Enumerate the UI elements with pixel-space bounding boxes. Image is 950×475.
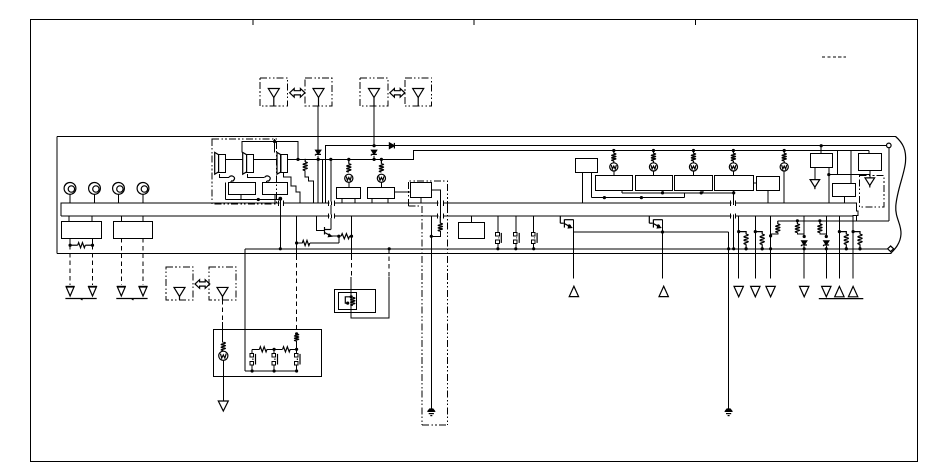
memory block U4 xyxy=(811,154,833,168)
amp top wire xyxy=(242,142,298,160)
node CN1 dot xyxy=(496,247,499,250)
connector J2 legs xyxy=(120,216,122,221)
node Q3e dot xyxy=(337,235,340,238)
node lamp5 dot xyxy=(783,149,786,152)
wire U4-link feed xyxy=(837,151,839,175)
motor M4 leg xyxy=(142,194,144,203)
relay drive wire xyxy=(574,231,729,233)
shield box bottom seg xyxy=(408,205,421,207)
terminal circle xyxy=(887,143,892,148)
lamp5 long stub xyxy=(783,171,785,203)
under-box wire W2 xyxy=(592,197,685,199)
node bus1 dot xyxy=(317,158,320,161)
wire v351 dashed xyxy=(351,256,353,278)
signal bus wire xyxy=(298,151,869,160)
antenna module A3 box xyxy=(360,78,388,106)
antenna A3 lead xyxy=(373,106,375,146)
U1 output stub xyxy=(240,194,242,199)
transistor Q4 xyxy=(559,216,561,223)
off-page triangle P2 xyxy=(659,286,668,296)
amp bottom wire xyxy=(226,199,281,201)
node R5a dot xyxy=(295,241,298,244)
wire v853.1 xyxy=(852,216,854,278)
lamp LP2 xyxy=(377,174,385,182)
A6 lead dashed xyxy=(222,300,224,322)
wire ant1 down xyxy=(317,156,319,203)
motor M2 leg xyxy=(94,194,96,203)
node r14 dot xyxy=(803,247,806,250)
S1 bottom stub xyxy=(621,191,623,193)
node W1a dot xyxy=(661,191,664,194)
amp stub to speaker 3 xyxy=(274,142,276,153)
crystal element xyxy=(345,297,351,303)
wire v331 down xyxy=(330,159,332,229)
aux wire riser xyxy=(856,216,858,221)
contact CN4 xyxy=(250,354,254,358)
node speaker-bus dot xyxy=(296,158,299,161)
motor M3 xyxy=(113,183,125,195)
antenna module A5 box xyxy=(166,267,193,300)
U4 right leg xyxy=(828,168,830,203)
K3 stub xyxy=(420,198,422,204)
transistor Q5 xyxy=(648,216,650,223)
dashed lead to speaker at x=70.1 xyxy=(69,245,71,285)
L1 lower wire xyxy=(305,171,314,204)
S5 stem xyxy=(767,191,769,204)
resistor R11 branch xyxy=(838,230,841,233)
contact out 3 xyxy=(533,243,535,249)
crystal loop wire xyxy=(351,277,389,318)
resistor R9 branch xyxy=(737,230,740,233)
wire v733 xyxy=(733,216,735,249)
connector J1 legs xyxy=(68,216,70,221)
wire amp to bus B xyxy=(279,200,281,249)
bus wire B xyxy=(245,248,887,250)
R14 out xyxy=(296,341,298,349)
contact CN1 xyxy=(496,233,500,237)
motor M3 leg xyxy=(118,194,120,203)
driver Q1 squiggle xyxy=(229,176,235,181)
U2 output stub xyxy=(274,194,276,203)
connector box J2 xyxy=(114,222,153,239)
node bus5 dot xyxy=(380,158,383,161)
triangle group underline xyxy=(819,298,864,300)
node W2b dot xyxy=(640,196,643,199)
U5 top stub xyxy=(868,151,870,154)
connector box J1 xyxy=(62,222,102,239)
resistor R5 xyxy=(302,240,310,245)
node net2 dot xyxy=(295,348,298,351)
pin pair K3 bottom xyxy=(438,214,444,219)
node L2 dot xyxy=(430,235,433,238)
motor M1 leg xyxy=(69,194,71,203)
dashed lead to speaker at x=121.3 xyxy=(120,238,122,285)
contact CN3 xyxy=(532,233,536,237)
node R4b dot xyxy=(350,235,353,238)
node amp-bottom dot xyxy=(257,198,260,201)
resistor Rl5 xyxy=(783,151,785,154)
pin pair at amp box xyxy=(279,201,284,206)
wire v431 xyxy=(430,216,432,409)
display block U5 xyxy=(859,154,882,171)
tuner block K2 xyxy=(368,188,395,199)
node bus4 dot xyxy=(347,158,350,161)
node R6 dot xyxy=(769,234,772,237)
fold tick mark 1 xyxy=(252,20,254,25)
main unit torn right edge xyxy=(891,137,906,254)
off-page triangle P6 xyxy=(751,286,760,296)
node W2a dot xyxy=(603,196,606,199)
main unit top edge xyxy=(57,136,896,138)
tuner block K1 xyxy=(337,188,361,199)
amp feed stub a xyxy=(274,139,276,141)
crystal outer box xyxy=(335,290,376,313)
node r11 dot xyxy=(745,247,748,250)
U5 link wire xyxy=(829,174,870,176)
R8 hook xyxy=(820,233,826,237)
speaker link wire 3 xyxy=(287,158,298,160)
antenna module A4 box xyxy=(405,78,432,106)
resistor R16 xyxy=(283,347,291,352)
wire stub v322 xyxy=(321,159,323,203)
ground underline left pair xyxy=(65,298,96,300)
Q4 out xyxy=(573,220,575,279)
contact feed 1 xyxy=(497,216,499,232)
R5 wire xyxy=(297,242,303,244)
LP8 out xyxy=(222,360,224,401)
resistor R7 xyxy=(796,221,798,224)
node lamp4 dot xyxy=(732,149,735,152)
off-page triangle P9 xyxy=(822,286,831,296)
node U4b dot xyxy=(827,173,830,176)
node lamp1 dot xyxy=(612,149,615,152)
ground underline right pair xyxy=(116,298,147,300)
node net1 dot xyxy=(273,348,276,351)
node Q5 dot xyxy=(661,230,664,233)
K3 right wire xyxy=(432,190,441,200)
relay box K4 xyxy=(459,223,485,239)
R6 hook xyxy=(771,233,778,236)
node r12 dot xyxy=(761,247,764,250)
amp block dash-dot box xyxy=(212,139,277,204)
fold tick mark 3 xyxy=(695,20,697,25)
lamp LP8 xyxy=(219,351,228,360)
U4 top stub xyxy=(820,146,822,154)
resistor R6 xyxy=(777,221,779,224)
switch block S4 xyxy=(715,176,754,191)
amp IC U1 xyxy=(229,183,256,195)
node bus3 dot xyxy=(329,158,332,161)
resistor R1 across J1 outputs xyxy=(70,244,78,246)
off-page triangle P11 xyxy=(848,286,857,296)
node r15 dot xyxy=(825,247,828,250)
K2 to K3 wire xyxy=(394,191,410,193)
antenna module A6 box xyxy=(209,267,236,300)
motor M1 xyxy=(64,183,76,195)
link arrow 3 xyxy=(195,280,210,289)
wire v839.4 xyxy=(838,216,840,278)
wire v804.2 lower xyxy=(803,249,805,279)
node net leg3 dot xyxy=(295,369,298,372)
controller box U3 xyxy=(576,159,598,173)
off-page triangle P10 xyxy=(835,286,844,296)
antenna A2 lead xyxy=(317,106,319,150)
pin pair S4 top xyxy=(731,201,736,206)
switch block S2 xyxy=(636,176,673,191)
off-page triangle P3 xyxy=(810,180,820,188)
S3 bottom stub xyxy=(702,191,704,193)
resistor Rl1 xyxy=(613,151,615,154)
node r13 dot xyxy=(769,247,772,250)
inductor L1 xyxy=(304,159,306,162)
off-page triangle P1 xyxy=(569,286,578,296)
lamp1 stub xyxy=(613,171,615,176)
lamp4 stub xyxy=(732,171,734,176)
node aux2 dot xyxy=(818,219,821,222)
contact out 1 xyxy=(497,243,499,249)
chassis ground G3 xyxy=(117,285,126,287)
resistor Rl4 xyxy=(732,151,734,154)
chassis ground G1 xyxy=(66,285,75,287)
clock block U6 xyxy=(833,184,856,197)
node U2 out dot xyxy=(278,197,282,201)
wire v770.6 xyxy=(770,216,772,278)
aux wire y221 xyxy=(778,220,889,222)
J1 output stubs xyxy=(69,238,71,245)
wire v296 down xyxy=(296,216,298,255)
lamp LP1 xyxy=(345,174,353,182)
resistor R10 branch xyxy=(754,230,757,233)
terminal down wire xyxy=(888,148,890,221)
U3 leg a xyxy=(582,173,584,204)
switch block S1 xyxy=(596,176,633,191)
wire v826.3 lower xyxy=(825,249,827,279)
wire v804.2 upper xyxy=(803,216,805,236)
wire v351 upper xyxy=(351,216,353,255)
wire v389 dashed xyxy=(388,249,390,277)
crystal through wire xyxy=(350,277,352,313)
zener D3 xyxy=(372,150,377,154)
D5 lead xyxy=(825,246,827,249)
link arrow 2 xyxy=(390,89,405,98)
node J1a dot xyxy=(69,244,72,247)
antenna module A1 box xyxy=(260,78,288,106)
resistor R13 xyxy=(221,342,225,350)
Q3 emitter wire xyxy=(332,235,339,237)
lamp LP3 xyxy=(610,163,618,171)
wire v826.3 upper xyxy=(825,216,827,236)
node v389 dot xyxy=(388,247,391,250)
K3 wire through bar xyxy=(439,200,441,217)
under-box wire W1 xyxy=(622,192,734,194)
D4 lead xyxy=(803,246,805,249)
earth wire v728 xyxy=(728,232,730,409)
off-page triangle P12 xyxy=(218,401,228,411)
K1 legs xyxy=(341,198,343,203)
U5 bottom stub xyxy=(869,170,871,178)
bus B end diamond xyxy=(888,246,894,252)
lamp LP7 xyxy=(780,163,788,171)
lamp unit box xyxy=(214,330,322,377)
S5 link xyxy=(753,182,756,184)
off-page triangle P5 xyxy=(734,286,743,296)
inductor L2 xyxy=(439,216,441,223)
main unit bottom edge xyxy=(57,253,892,255)
amp IC U2 xyxy=(263,183,288,195)
node R7 dot xyxy=(803,235,806,238)
lamp LP4 xyxy=(649,163,657,171)
dashed lead to speaker at x=143 xyxy=(142,238,144,285)
wire v755.3 xyxy=(754,216,756,278)
node W1b dot xyxy=(700,191,703,194)
net leg 1 upper xyxy=(251,349,253,353)
pin pair S4 bottom xyxy=(731,214,736,219)
pin pair bar A bottom xyxy=(329,214,335,219)
speaker SP3 xyxy=(277,152,281,174)
resistor Rl3 xyxy=(693,151,695,154)
LP1 stub xyxy=(348,182,350,187)
node r17 dot xyxy=(858,247,861,250)
node net leg2 dot xyxy=(273,369,276,372)
feed wire v245 xyxy=(244,249,246,371)
switch net bottom rail xyxy=(245,370,297,372)
zener D2 xyxy=(316,150,321,154)
ctrl wire corner xyxy=(326,146,887,204)
off-page triangle P8 xyxy=(800,286,809,296)
shield run right xyxy=(446,206,448,425)
transistor Q3 xyxy=(324,227,326,235)
resistor Rl2 xyxy=(653,151,655,154)
chassis ground G4 xyxy=(138,285,147,287)
R4 leads xyxy=(339,235,341,237)
wire v738.7 xyxy=(738,216,740,278)
node r16 dot xyxy=(845,247,848,250)
off-page triangle P7 xyxy=(766,286,775,296)
main unit left edge xyxy=(56,137,58,254)
shield box K3 dash-dot xyxy=(408,181,447,206)
speaker SP2 xyxy=(243,152,247,174)
zener D4 xyxy=(802,241,807,245)
fold tick mark 2 xyxy=(473,20,475,25)
LP2 stub xyxy=(380,182,382,187)
bus bar A (main connector strip) xyxy=(61,203,858,216)
speaker link wire 2 xyxy=(253,158,277,160)
K2 legs xyxy=(371,198,373,203)
resistor R3 xyxy=(380,159,382,163)
lamp LP6 xyxy=(729,163,737,171)
node W1c dot xyxy=(732,191,735,194)
node v733 dot xyxy=(732,247,735,250)
off-page triangle P4 xyxy=(865,178,875,186)
Q5 out xyxy=(662,220,664,279)
node R8 dot xyxy=(825,235,828,238)
lamp LP5 xyxy=(689,163,697,171)
node ant2 dot xyxy=(373,144,376,147)
diode D1 xyxy=(389,143,394,149)
contact out 2 xyxy=(515,243,517,249)
contact feed 2 xyxy=(515,216,517,232)
dashed lead to speaker at x=92.5 xyxy=(92,245,94,285)
SP1 to U1 wire xyxy=(220,174,230,177)
revision dashes xyxy=(822,56,846,58)
node bus2 dot xyxy=(373,158,376,161)
earth ground G5 xyxy=(428,409,434,411)
U4 bottom stub xyxy=(814,168,816,180)
speaker link wire 1 xyxy=(225,158,243,160)
switch net top rail xyxy=(252,348,259,350)
contact feed 3 xyxy=(533,216,535,232)
speaker SP1 xyxy=(215,152,219,174)
motor M4 xyxy=(137,183,149,195)
net leg 3 lower xyxy=(296,365,298,371)
S2 bottom stub xyxy=(662,191,664,193)
pin pair K3 top xyxy=(438,201,444,206)
link arrow 1 xyxy=(290,89,305,98)
antenna module A2 box xyxy=(305,78,332,106)
S4 bottom stub xyxy=(733,191,735,204)
T1 base feed xyxy=(317,216,324,230)
net leg 3 upper xyxy=(296,349,298,353)
A6 lead solid xyxy=(222,322,224,342)
lamp3 stub xyxy=(693,171,695,176)
net leg 2 lower xyxy=(273,365,275,371)
switch block S5 xyxy=(757,177,780,191)
wire U6 feed xyxy=(850,151,852,184)
contact CN2 xyxy=(514,233,518,237)
motor M2 xyxy=(89,183,101,195)
node CN2 dot xyxy=(514,247,517,250)
node ampB dot xyxy=(279,247,282,250)
pin pair bar A top xyxy=(329,201,335,206)
U3 leg b xyxy=(591,173,593,198)
node CN3 dot xyxy=(532,247,535,250)
node lamp3 dot xyxy=(692,149,695,152)
shield run left xyxy=(421,206,423,425)
L2 out wire xyxy=(431,231,440,236)
resistor R4 xyxy=(341,234,350,239)
resistor R8 xyxy=(819,221,821,224)
chassis ground G2 xyxy=(88,285,97,287)
node lamp2 dot xyxy=(652,149,655,152)
SP2 to U2 wire xyxy=(248,174,265,177)
wire ant2 to bus xyxy=(373,156,375,160)
shield bottom xyxy=(422,424,447,426)
resistor R2 xyxy=(348,159,350,163)
lamp2 stub xyxy=(653,171,655,176)
driver Q2 squiggle xyxy=(265,176,271,181)
resistor R14 xyxy=(295,332,298,335)
contact CN6 xyxy=(294,354,298,358)
preamp block K3 xyxy=(411,183,432,198)
node aux1 dot xyxy=(796,219,799,222)
net leg 1 lower xyxy=(251,365,253,371)
node amp-top dot xyxy=(273,140,276,143)
zener D5 xyxy=(824,241,829,245)
node net leg1 dot xyxy=(251,369,254,372)
node J1b dot xyxy=(91,244,94,247)
contact CN5 xyxy=(272,354,276,358)
R7 hook xyxy=(797,233,804,237)
switch block S3 xyxy=(675,176,713,191)
resistor R15 xyxy=(259,347,267,352)
node U4 dot xyxy=(820,144,823,147)
K4 stem xyxy=(471,216,473,223)
earth ground G6 xyxy=(725,409,731,411)
node v728 dot xyxy=(727,247,730,250)
crystal inner box xyxy=(339,293,357,310)
net leg 2 upper xyxy=(273,349,275,353)
SP3 jog wire xyxy=(284,173,301,204)
